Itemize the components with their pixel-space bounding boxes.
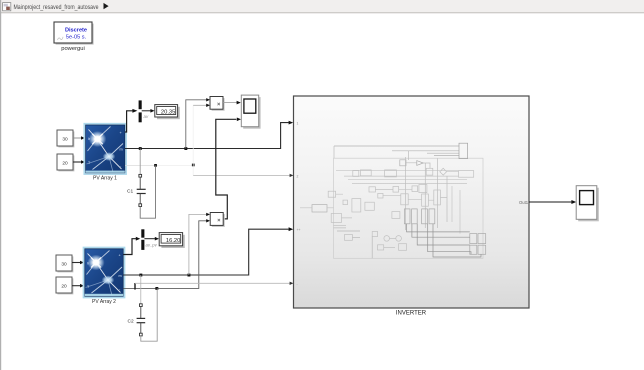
svg-text:30: 30 <box>62 137 68 143</box>
wire PV1 + output up to current bar <box>125 109 137 132</box>
INVERTER contents preview <box>300 143 486 258</box>
junction node on m-bus 2 (C2 tap) <box>139 274 142 277</box>
wire product2 output to scope1 input 2 <box>216 119 237 219</box>
svg-text:m: m <box>120 148 123 152</box>
preview gain triangle <box>417 161 423 166</box>
svg-text:PV Array 2: PV Array 2 <box>92 299 116 305</box>
wire C2 loop to minus bus node <box>141 288 157 341</box>
svg-text:20: 20 <box>61 284 67 290</box>
preview relational row <box>426 168 433 175</box>
svg-text:powergui: powergui <box>61 46 85 52</box>
scope block output <box>576 186 599 222</box>
wire bar to display 1 <box>142 109 155 119</box>
preview stair bundle <box>407 224 470 232</box>
preview bridge pair 1 <box>404 209 410 224</box>
svg-text:1: 1 <box>297 122 299 126</box>
svg-text:m: m <box>119 274 122 278</box>
wire PV1 - output <box>125 164 193 166</box>
preview pulse row blocks <box>353 170 359 176</box>
svg-text:++: ++ <box>297 228 301 232</box>
constant block 25 (T, PV Array 1) <box>57 154 74 171</box>
node at product branch <box>192 164 195 167</box>
wire constant->T PV2 <box>72 284 84 288</box>
preview boundary box <box>334 158 484 258</box>
node at capacitor loop top <box>154 164 157 167</box>
display block 16.20 <box>159 233 185 248</box>
svg-text:Mainproject_resaved_from_autos: Mainproject_resaved_from_autosave <box>14 4 99 11</box>
junction node on m-bus (C1 tap) <box>139 147 142 150</box>
constant block Ir PV2 <box>56 255 73 272</box>
svg-text:30: 30 <box>61 262 67 268</box>
scope block 1 <box>241 95 260 129</box>
wire C1 loop to minus node <box>140 165 155 218</box>
INVERTER subsystem block <box>294 96 530 317</box>
preview lower small blocks <box>372 232 377 237</box>
powergui block <box>54 22 94 52</box>
preview mid cluster blocks <box>393 187 399 193</box>
breadcrumb text <box>14 3 109 11</box>
svg-text:INVERTER: INVERTER <box>396 311 427 317</box>
display block 20.35 <box>155 105 180 120</box>
constant block 1000 (Ir, PV Array 1) <box>57 130 74 147</box>
svg-text:-: - <box>297 282 298 286</box>
svg-text:PV Array 1: PV Array 1 <box>93 176 117 182</box>
preview scope block <box>459 143 468 158</box>
wire m-bus to product1 input 1 <box>186 98 210 148</box>
junction node on m-bus 2 (product tap) <box>188 274 191 277</box>
svg-text:5e-05 s.: 5e-05 s. <box>66 34 87 40</box>
svg-text:C1: C1 <box>127 189 133 195</box>
scope1 input2 arrow <box>237 118 241 122</box>
PV Array 2 block <box>84 248 125 306</box>
preview top feed wires <box>334 146 459 155</box>
preview bridge pair 2 <box>422 209 428 224</box>
wire m-bus2 to product2 input 1 <box>189 213 210 275</box>
product block 2 <box>210 213 225 228</box>
svg-text:Discrete: Discrete <box>65 28 87 34</box>
wire bar to display 2 <box>144 237 159 248</box>
preview right column blocks <box>470 234 477 244</box>
wire to product1 input 2 <box>193 104 210 107</box>
junction node on m-bus (product tap) <box>184 147 187 150</box>
model icon <box>3 3 11 11</box>
capacitor C2 <box>128 275 146 336</box>
m-bus wire PV Array 1 to INVERTER port 1 <box>125 121 293 149</box>
minus bus PV2 to product2 input 2 <box>123 219 210 288</box>
wire constant->Ir PV2 <box>72 261 84 265</box>
current measurement bar PV1 <box>139 100 142 122</box>
svg-text:av_pv: av_pv <box>146 242 158 247</box>
wire constant->Ir PV1 <box>73 136 85 140</box>
wire product1 to scope <box>223 101 241 105</box>
preview left source blocks <box>328 191 335 197</box>
preview long verticals <box>405 157 447 230</box>
faint vertical branch to product input 2 <box>192 105 194 175</box>
current measurement bar PV2 <box>141 229 144 250</box>
svg-text:20: 20 <box>62 161 68 167</box>
PV Array 1 block <box>84 124 126 182</box>
svg-text:Out1: Out1 <box>519 200 529 205</box>
junction node on minus bus (C2 loop) <box>155 287 158 290</box>
m-bus wire PV Array 2 to INVERTER port 3 <box>123 227 293 275</box>
svg-text:2: 2 <box>297 174 299 178</box>
capacitor C1 <box>127 149 146 207</box>
svg-text:16.20: 16.20 <box>166 238 181 244</box>
wire INVERTER Out1 to scope <box>529 200 576 204</box>
svg-text:20.35: 20.35 <box>161 109 176 115</box>
svg-text:C2: C2 <box>128 319 134 325</box>
branch tick to INVERTER port 4 <box>134 283 136 290</box>
wire constant->T PV1 <box>73 160 85 164</box>
wire PV2 + output up to current bar <box>123 237 140 255</box>
wire node A to INVERTER port 2 <box>193 174 293 177</box>
product block 1 <box>210 97 225 111</box>
wire to INVERTER port 4 <box>135 282 293 285</box>
constant block T PV2 <box>56 277 73 294</box>
svg-text:av: av <box>144 114 149 119</box>
